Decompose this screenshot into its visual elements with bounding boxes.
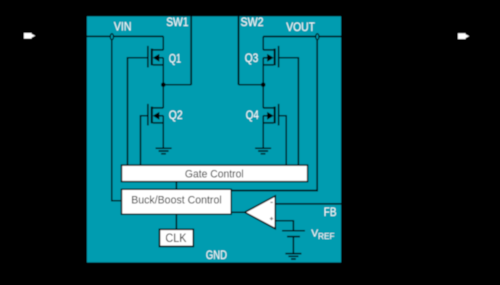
block: Gate Control bbox=[122, 165, 308, 182]
svg-text:VIN: VIN bbox=[114, 20, 132, 34]
wire: VOUT sense down to Buck/Boost bbox=[231, 40, 317, 191]
node B junction dot bbox=[261, 82, 266, 87]
op-amp U1 error amplifier bbox=[245, 196, 276, 229]
ground (under VREF) bbox=[285, 254, 301, 259]
svg-text:CLK: CLK bbox=[165, 231, 187, 245]
svg-text:REF: REF bbox=[318, 231, 335, 241]
wire: VIN rail bbox=[87, 35, 163, 37]
wire: Q1 drain vertical bbox=[162, 36, 164, 50]
battery VREF source bbox=[282, 231, 305, 237]
svg-text:VOUT: VOUT bbox=[286, 20, 315, 34]
wire: Q3 source vertical to node B bbox=[262, 58, 264, 85]
left nav arrow bbox=[24, 33, 35, 39]
teal card background bbox=[87, 16, 341, 262]
svg-text:Buck/Boost Control: Buck/Boost Control bbox=[131, 195, 222, 207]
svg-text:Q3: Q3 bbox=[245, 51, 259, 65]
wire: Q2 gate line bbox=[141, 116, 148, 165]
transistor Q3 bbox=[263, 46, 278, 68]
wire: Q2 source to ground bbox=[162, 116, 164, 148]
wire: Q1 gate line bbox=[128, 58, 148, 165]
wire: VOUT rail bbox=[263, 36, 341, 38]
svg-text:Q1: Q1 bbox=[169, 51, 181, 65]
svg-text:FB: FB bbox=[324, 205, 337, 219]
right nav arrow bbox=[458, 33, 469, 39]
wire: VIN sense line down to Buck/Boost bbox=[112, 40, 122, 201]
terminal VOUT pin circle bbox=[316, 34, 319, 40]
wire: Q3 drain vertical bbox=[262, 37, 264, 50]
wire: Q3 gate line bbox=[278, 58, 298, 165]
transistor Q4 bbox=[263, 104, 278, 126]
svg-text:Gate Control: Gate Control bbox=[185, 168, 244, 180]
wire: op-amp output to Buck/Boost bbox=[231, 211, 245, 213]
svg-text:Q4: Q4 bbox=[246, 108, 259, 122]
svg-text:GND: GND bbox=[206, 250, 227, 262]
wire: FB line to op-amp inverting input bbox=[275, 203, 341, 205]
svg-text:Q2: Q2 bbox=[169, 108, 183, 122]
wire: Q4 drain vertical bbox=[262, 85, 264, 108]
transistor Q2 bbox=[148, 104, 163, 126]
node A junction dot bbox=[161, 82, 166, 87]
wire: node B to SW2 bbox=[239, 84, 264, 86]
block: CLK bbox=[160, 229, 194, 246]
wire: VREF battery to ground bbox=[292, 237, 294, 254]
transistor Q1 bbox=[148, 46, 163, 68]
terminal VIN pin circle bbox=[110, 34, 113, 40]
wire: SW2 pin line bbox=[238, 16, 240, 84]
wire: Buck/Boost to CLK connector bbox=[175, 214, 177, 229]
ground (under Q4) bbox=[255, 148, 271, 154]
svg-text:SW1: SW1 bbox=[166, 15, 188, 29]
wire: Q1 source vertical to node A bbox=[162, 58, 164, 85]
block: Buck/Boost Control bbox=[122, 189, 232, 214]
wire: Gate Control to Buck/Boost connector bbox=[175, 182, 177, 190]
svg-text:SW2: SW2 bbox=[241, 15, 264, 29]
ground (under Q2) bbox=[156, 148, 172, 154]
wire: Q4 source to ground bbox=[262, 116, 264, 148]
wire: SW1 pin line bbox=[190, 16, 192, 84]
wire: Q2 drain vertical bbox=[162, 85, 164, 108]
wire: Q4 gate line bbox=[278, 116, 286, 165]
wire: node A to SW1 bbox=[163, 84, 191, 86]
wire: op-amp non-inverting input to VREF bbox=[275, 221, 293, 231]
